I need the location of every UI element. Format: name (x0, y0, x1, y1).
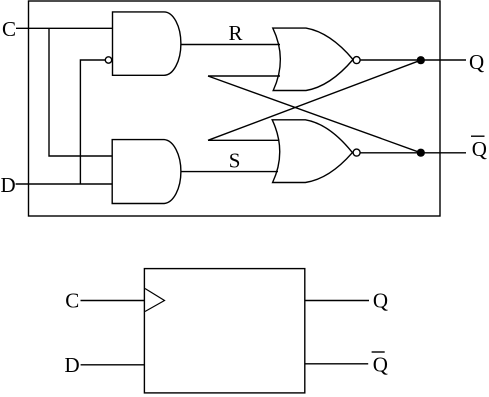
svg-text:Q: Q (472, 137, 487, 161)
svg-text:S: S (229, 148, 241, 172)
nor-gate G3 (top) (273, 28, 353, 90)
wire D branch up to inverted input of top AND gate (80, 60, 105, 184)
svg-text:D: D (65, 353, 80, 377)
wire G4 upper input horizontal (208, 139, 279, 141)
wire C to top AND gate (16, 27, 113, 29)
svg-text:Q: Q (373, 288, 388, 312)
clock chevron inside U1 (145, 289, 165, 312)
output bubble of G4 (353, 149, 360, 156)
wire Q output of block (305, 300, 369, 302)
D latch block symbol U1 (144, 269, 304, 393)
wire C branch down to bottom AND gate (49, 28, 112, 156)
svg-text:D: D (1, 173, 16, 197)
and-gate G2 (C AND D) (112, 140, 181, 204)
wire feedback diagonal from node QBAR to G3 input (208, 76, 421, 153)
wire R (G1 output to top NOR) (181, 44, 280, 46)
svg-text:Q: Q (469, 50, 484, 74)
wire feedback diagonal from node Q to G4 input (208, 60, 421, 140)
output bubble of G3 (353, 57, 360, 64)
svg-text:Q: Q (373, 353, 388, 377)
and-gate G1 (C AND NOT D) (113, 12, 181, 75)
wire D input to block (81, 364, 145, 366)
junction dot on Q (417, 56, 425, 64)
overline of QBAR label (471, 135, 485, 137)
overline of QBAR label (block) (372, 351, 385, 353)
wire QBAR output of block (305, 363, 368, 365)
outer box (latch internals) (29, 1, 441, 216)
wire C input to block (81, 300, 145, 302)
wire QBAR output (360, 152, 466, 154)
wire G3 lower input horizontal (208, 75, 280, 77)
wire D to bottom AND gate (16, 183, 113, 185)
nor-gate G4 (bottom) (272, 120, 352, 183)
svg-text:C: C (65, 289, 79, 313)
wire S (G2 output to bottom NOR) (182, 171, 279, 173)
wire Q output (360, 59, 466, 61)
inverter bubble on G1 lower input (105, 57, 111, 63)
junction dot on QBAR (417, 149, 425, 157)
svg-text:R: R (229, 21, 243, 45)
svg-text:C: C (2, 17, 16, 41)
